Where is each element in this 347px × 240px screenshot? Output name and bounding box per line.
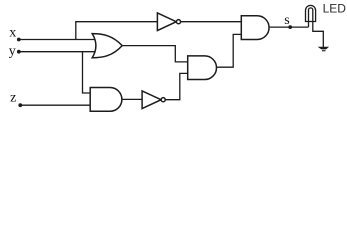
wire x branch to inverter U2 <box>76 22 158 40</box>
svg-text:x: x <box>9 26 16 41</box>
inverter U2 <box>157 13 180 31</box>
svg-text:s: s <box>284 13 289 28</box>
wire s output to LED <box>269 26 309 28</box>
wire and-gate U3 output to inverter U6 <box>122 98 143 100</box>
wire LED cathode to ground <box>313 22 324 48</box>
node x terminal dot <box>17 38 21 42</box>
and-gate U4 <box>188 56 217 80</box>
LED D1 <box>306 5 316 27</box>
wire y input <box>19 51 97 53</box>
wire y branch to and-gate U3 <box>83 52 92 93</box>
and-gate U5 <box>241 16 269 40</box>
wire x input <box>19 39 97 41</box>
wire and-gate U4 output to and-gate U5 <box>217 34 242 67</box>
wire z input <box>20 104 91 106</box>
svg-text:LED: LED <box>323 2 347 16</box>
or-gate U1 <box>92 34 122 58</box>
node z terminal dot <box>18 103 22 107</box>
ground <box>318 47 330 52</box>
node s junction dot <box>288 25 292 29</box>
wire or-gate U1 output to and-gate U4 <box>122 46 188 62</box>
wire inverter U2 output to and-gate U5 <box>181 21 242 23</box>
svg-text:z: z <box>10 91 16 106</box>
node y terminal dot <box>17 50 21 54</box>
inverter U6 <box>142 91 165 109</box>
svg-text:y: y <box>9 44 16 59</box>
and-gate U3 <box>90 88 122 112</box>
wire inverter U6 output to and-gate U4 <box>165 73 188 99</box>
